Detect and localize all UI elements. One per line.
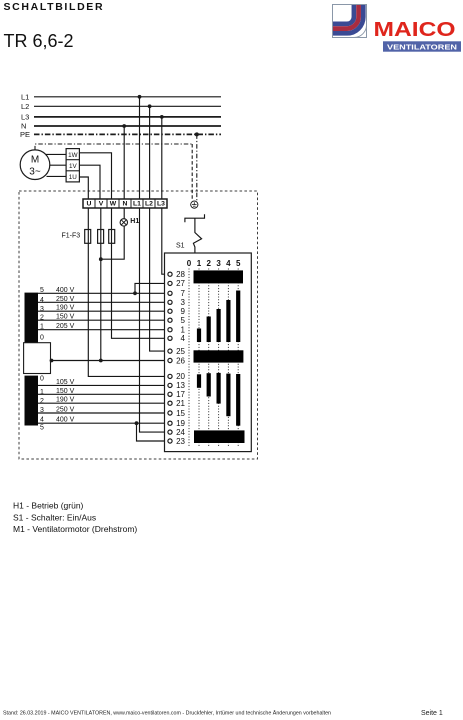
svg-text:13: 13 [176,381,185,390]
svg-text:1V: 1V [69,163,78,170]
svg-text:4: 4 [40,416,44,423]
wire N run through lamp to V [101,208,124,260]
wire motor to 1V [50,164,67,166]
svg-text:0: 0 [40,375,44,382]
terminal 9 [168,307,186,316]
svg-text:S1: S1 [176,242,185,249]
wire L2 drop [149,106,151,199]
terminal 1 [168,326,186,335]
net N [21,122,221,131]
svg-text:PE: PE [20,130,30,139]
terminal 13 [168,381,186,390]
svg-text:3~: 3~ [29,167,41,178]
contact bar step position 4 lower [226,374,230,417]
dotted position guides [189,269,238,447]
junction at primary box [50,359,54,363]
svg-text:9: 9 [181,307,186,316]
svg-text:1U: 1U [69,174,78,181]
svg-text:19: 19 [176,419,185,428]
wire L2 run to terminal 25 [150,208,168,352]
motor M1 [20,150,50,180]
terminal 3 [168,298,186,307]
terminal 23 [168,437,186,446]
wire N drop [123,126,125,199]
wire L3 drop [161,117,163,199]
wire tap 250V to terminal 3 [38,301,168,303]
wire 1V to terminal V [79,165,100,199]
svg-text:15: 15 [176,409,185,418]
contact bar step position 3 upper [217,309,221,342]
lower winding voltage labels [56,379,75,424]
svg-text:5: 5 [181,316,186,325]
contact bar terminals 24-23 [194,430,245,443]
net L2 [21,102,221,111]
svg-text:7: 7 [181,289,186,298]
svg-text:205 V: 205 V [56,323,75,330]
wire L3 run to terminal 28 [162,208,168,275]
motor terminal block 1W 1V 1U [66,149,79,182]
terminal strip U V W N L1 L2 L3 [83,199,167,208]
contact bar terminals 25-26 [194,350,244,362]
terminal 28 [168,270,186,279]
svg-text:Seite 1: Seite 1 [421,710,443,717]
svg-text:SCHALTBILDER: SCHALTBILDER [4,1,105,13]
net L1 [21,92,221,101]
svg-text:26: 26 [176,356,185,365]
svg-text:21: 21 [176,399,185,408]
contact bar step position 1 upper [197,329,201,343]
svg-text:M1 - Ventilatormotor (Drehstro: M1 - Ventilatormotor (Drehstrom) [13,524,137,534]
terminal 20 [168,372,186,381]
svg-text:TR 6,6-2: TR 6,6-2 [4,31,74,51]
wire 1W to terminal W [79,153,111,199]
earth terminal [191,201,198,208]
fuse F3 [109,230,115,244]
wire U run to terminal 20 [88,208,168,377]
svg-text:L2: L2 [145,201,153,208]
junction V-26 [99,359,103,363]
terminal 25 [168,347,186,356]
svg-text:1W: 1W [68,152,78,159]
wire tap 150V to terminal 17 [38,393,168,395]
svg-text:2: 2 [206,259,211,268]
svg-text:3: 3 [40,306,44,313]
wire tap 400V to terminals 7 and 27 [38,292,168,294]
net L3 [21,112,221,121]
wire tap 150V to terminal 5 [38,319,168,321]
terminal 26 [168,356,186,365]
wire tap 190V to terminal 9 [38,310,168,312]
wire 1U to terminal U [79,177,88,199]
svg-text:L2: L2 [21,102,29,111]
terminal 5 [168,316,186,325]
terminal 7 [168,289,186,298]
svg-text:1: 1 [40,389,44,396]
svg-text:3: 3 [216,259,221,268]
transformer primary box [24,343,51,374]
wire tap 105V to terminal 13 [38,384,168,386]
svg-text:2: 2 [40,398,44,405]
svg-text:Stand: 26.03.2019 - MAICO VENT: Stand: 26.03.2019 - MAICO VENTILATOREN, … [3,710,331,717]
svg-text:20: 20 [176,372,185,381]
lower winding tap numbers [40,375,44,431]
terminal 21 [168,399,186,408]
wire tap 190V to terminal 21 [38,402,168,404]
svg-text:25: 25 [176,347,185,356]
svg-text:VENTILATOREN: VENTILATOREN [387,42,457,51]
lamp H1 [120,218,139,226]
upper winding tap numbers [40,287,44,342]
wire primary to terminal 26 [51,360,168,362]
fuse F1 [85,230,91,244]
terminal 15 [168,409,186,418]
contact bar step position 3 lower [217,373,221,404]
svg-text:4: 4 [181,334,186,343]
wire V run to node 26 [100,208,102,361]
terminal 24 [168,428,186,437]
wire motor to 1U [47,175,67,177]
svg-text:23: 23 [176,437,185,446]
table header positions 0-5 [187,259,241,268]
wire tap 205V to terminal 1 [38,329,168,331]
svg-text:H1 - Betrieb (grün): H1 - Betrieb (grün) [13,501,84,511]
wire PE branch drop (dashed) [191,144,193,201]
wire PE branch to motor (dash-dot) [35,144,192,150]
wire tap 250V to terminal 15 [38,412,168,414]
wire L1 run to terminal 24 [140,208,168,433]
svg-text:5: 5 [40,425,44,432]
svg-text:L3: L3 [21,112,29,121]
svg-text:L3: L3 [157,201,165,208]
contact bar step position 5 lower [236,374,240,426]
wire PE drop from PE line (dash-dot) [196,134,198,201]
switch table box [165,253,252,452]
terminal 4 [168,334,186,343]
svg-text:L1: L1 [133,201,141,208]
svg-text:4: 4 [226,259,231,268]
svg-text:F1-F3: F1-F3 [62,233,81,240]
contact bar terminals 28-27 [194,270,244,283]
svg-text:L1: L1 [21,92,29,101]
transformer T1 lower winding [25,376,39,426]
junction N-V [99,257,103,261]
svg-text:S1 - Schalter: Ein/Aus: S1 - Schalter: Ein/Aus [13,512,96,522]
terminal 27 [168,279,186,288]
svg-text:N: N [123,201,128,208]
svg-text:MAICO: MAICO [374,19,456,41]
contact bar step position 2 upper [207,317,211,343]
switch S1 actuator [176,214,205,253]
contact bar step position 2 lower [207,373,211,396]
terminal 19 [168,419,186,428]
contact bar step position 1 lower [197,374,201,388]
upper winding voltage labels [56,287,75,330]
svg-text:24: 24 [176,428,185,437]
svg-text:4: 4 [40,297,44,304]
wire tap 400V to terminals 19 and 23 [38,422,168,424]
contact bar step position 5 upper [236,291,240,343]
contact bar step position 4 upper [226,300,230,342]
net PE [20,130,221,139]
svg-text:28: 28 [176,270,185,279]
svg-text:M: M [31,155,39,166]
svg-text:W: W [110,201,117,208]
svg-text:V: V [99,201,104,208]
svg-text:H1: H1 [130,218,139,225]
svg-text:1: 1 [197,259,202,268]
wire L1 drop [139,97,141,199]
wire motor to 1W [46,153,66,155]
MAICO logo [333,5,462,52]
transformer T1 upper winding [25,293,39,343]
svg-text:5: 5 [236,259,241,268]
svg-text:0: 0 [40,335,44,342]
wire W run to terminal 4 [112,208,168,339]
svg-text:17: 17 [176,390,185,399]
enclosure dashed box [19,191,258,459]
svg-text:0: 0 [187,259,192,268]
fuse F2 [98,230,104,244]
svg-text:U: U [87,201,92,208]
svg-text:3: 3 [181,298,186,307]
terminal 17 [168,390,186,399]
svg-text:27: 27 [176,279,185,288]
